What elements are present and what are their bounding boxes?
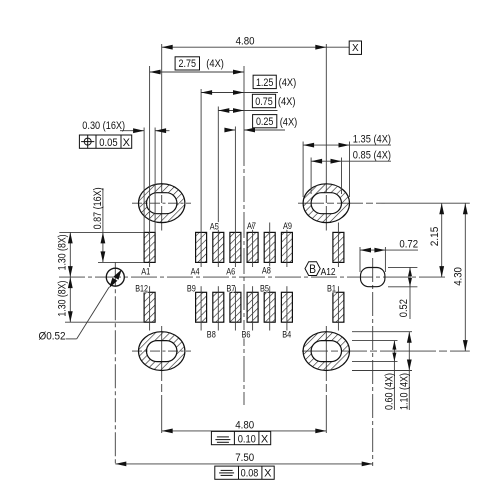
svg-text:B4: B4 <box>282 329 291 339</box>
right hole vertical centerline extended to 7.50 dim <box>372 258 374 466</box>
svg-text:(4X): (4X) <box>278 96 296 108</box>
svg-text:X: X <box>261 433 269 445</box>
svg-text:A5: A5 <box>210 222 219 232</box>
svg-text:A9: A9 <box>283 221 292 231</box>
contact pad A6 <box>230 232 241 262</box>
svg-text:4.80: 4.80 <box>235 420 254 432</box>
contact pad A7 <box>247 232 258 262</box>
dimension 4.80 top between oval centers <box>162 46 327 48</box>
svg-text:1.30 (8X): 1.30 (8X) <box>56 234 68 270</box>
svg-text:0.87 (16X): 0.87 (16X) <box>92 187 104 229</box>
contact pad B8 <box>213 292 224 322</box>
datum B hexagon <box>305 262 320 276</box>
datum X box with connecting line <box>326 46 349 48</box>
svg-text:2.15: 2.15 <box>429 227 441 247</box>
dimension 0.52 right hole height <box>388 266 417 268</box>
dimension 0.85 (4X) oval hole width <box>311 160 391 162</box>
right side hole 0.72 x 0.52 obround <box>361 268 385 287</box>
dimension 0.30 (16X) pad width with outside arrows <box>120 130 144 132</box>
dimension 7.50 between hole centers <box>115 463 372 465</box>
svg-text:1.30 (8X): 1.30 (8X) <box>56 281 68 317</box>
extension lines for 1.35 and 0.85 dims <box>302 142 304 198</box>
contact pad B9 <box>196 292 207 322</box>
svg-text:(4X): (4X) <box>206 58 224 70</box>
position feature control frame 0.05 X <box>79 135 131 148</box>
bottom-left oval vertical centerline extended to dim <box>161 326 163 433</box>
top-right oval horizontal centerline <box>298 202 385 204</box>
contact pad B6 <box>247 292 258 322</box>
svg-text:B6: B6 <box>242 329 251 339</box>
svg-text:0.52: 0.52 <box>398 299 410 317</box>
svg-text:X: X <box>352 43 359 54</box>
svg-text:4.80: 4.80 <box>236 35 255 47</box>
bottom-right oval vertical centerline extended to dim <box>325 326 327 433</box>
svg-text:0.05: 0.05 <box>99 137 117 149</box>
dimension 1.35 (4X) oval pad width <box>303 144 391 146</box>
dimension 1.25 (4X) <box>201 92 278 94</box>
svg-text:B5: B5 <box>260 283 269 293</box>
extension line A1 pad right edge <box>154 128 156 233</box>
bottom-right oval horizontal centerline <box>302 350 390 352</box>
top-left oval horizontal centerline <box>132 202 191 204</box>
contact pad A1 <box>144 232 155 262</box>
contact pad A12 <box>333 232 344 262</box>
dimension 1.10 (4X) oval pad height <box>352 331 412 333</box>
oval mounting pad bottom-right (1.35 x 1.10, hole 0.85 x 0.60) <box>303 332 349 371</box>
svg-text:B9: B9 <box>187 283 196 293</box>
dimension 2.15 oval center to centerline <box>441 203 443 277</box>
svg-text:A6: A6 <box>226 266 235 276</box>
extension line at A-pad bottom edge <box>98 261 144 263</box>
dimension 0.72 right hole width <box>359 247 361 272</box>
contact pad A8 <box>264 232 275 262</box>
left hole, diameter 0.52, with leader bowtie arrows <box>106 268 124 286</box>
svg-text:0.60 (4X): 0.60 (4X) <box>384 373 396 410</box>
svg-text:(4X): (4X) <box>279 77 297 89</box>
svg-text:B8: B8 <box>207 329 216 339</box>
svg-text:A8: A8 <box>262 266 271 276</box>
contact pad B5 <box>264 292 275 322</box>
dimension 0.60 (4X) oval hole height <box>352 340 398 342</box>
dimension 0.75 (4X) <box>218 110 277 112</box>
oval mounting pad top-right (1.35 x 1.10, hole 0.85 x 0.60) <box>303 184 349 223</box>
dimension 2.75 (4X) from centerline to A1 center <box>150 71 244 73</box>
svg-text:1.35 (4X): 1.35 (4X) <box>353 133 391 145</box>
contact pad A5 <box>213 232 224 262</box>
contact pad A4 <box>196 232 207 262</box>
svg-text:2.75: 2.75 <box>179 58 197 70</box>
contact pad A9 <box>281 232 292 262</box>
main vertical centerline upper solid part <box>243 66 245 140</box>
dimension 0.87 (16X) pad length <box>102 188 104 262</box>
extension line at A-pad top edge <box>59 231 144 233</box>
extension line at B-pad bottom edge <box>65 321 144 323</box>
symmetry feature control frame 0.10 X <box>211 431 270 444</box>
svg-text:0.72: 0.72 <box>399 238 418 250</box>
contact pad B4 <box>281 292 292 322</box>
svg-text:0.08: 0.08 <box>241 468 259 480</box>
pad centerlines <box>149 66 151 267</box>
svg-text:0.25: 0.25 <box>256 116 274 128</box>
top-right oval vertical centerline <box>325 44 327 231</box>
oval mounting pad top-left (1.35 x 1.10, hole 0.85 x 0.60) <box>139 184 185 223</box>
left hole vertical centerline extended to 7.50 dim <box>114 262 116 466</box>
svg-text:0.30 (16X): 0.30 (16X) <box>82 120 125 132</box>
extension line at top oval center height to 2.15/4.30 dims <box>385 202 470 204</box>
svg-text:1.10 (4X): 1.10 (4X) <box>399 373 411 410</box>
svg-text:A7: A7 <box>247 221 256 231</box>
svg-text:B1: B1 <box>327 283 336 293</box>
svg-text:1.25: 1.25 <box>256 77 274 89</box>
svg-text:0.75: 0.75 <box>255 96 273 108</box>
bottom-left oval horizontal centerline <box>132 350 191 352</box>
dimension 4.30 oval row spacing <box>464 203 466 351</box>
dimension 1.30 (8X) lower: centerline to B pad bottom <box>69 277 71 322</box>
svg-text:A12: A12 <box>321 266 336 278</box>
svg-text:B7: B7 <box>226 283 235 293</box>
contact pad B1 <box>333 292 344 322</box>
svg-text:A4: A4 <box>191 266 200 276</box>
symmetry feature control frame 0.08 X <box>215 466 274 479</box>
svg-text:4.30: 4.30 <box>453 267 465 286</box>
svg-text:X: X <box>123 137 131 149</box>
svg-text:(4X): (4X) <box>280 116 298 128</box>
svg-text:7.50: 7.50 <box>235 452 254 464</box>
main horizontal centerline (dash-dot) <box>59 276 446 278</box>
dimension 1.30 (8X) upper: centerline to A pad top <box>69 232 71 277</box>
contact pad B12 <box>144 292 155 322</box>
svg-text:0.10: 0.10 <box>238 433 256 445</box>
top-left oval vertical centerline <box>161 44 163 231</box>
oval mounting pad bottom-left (1.35 x 1.10, hole 0.85 x 0.60) <box>139 332 185 371</box>
svg-text:X: X <box>264 468 272 480</box>
dimension 0.25 (4X) outside arrows <box>225 129 236 131</box>
main vertical centerline (dash-dot) <box>243 140 245 405</box>
svg-text:Ø0.52: Ø0.52 <box>39 330 66 342</box>
extension line A1 pad left edge <box>143 128 145 233</box>
contact pad B7 <box>230 292 241 322</box>
svg-text:B: B <box>309 264 316 276</box>
svg-text:0.85 (4X): 0.85 (4X) <box>353 150 391 162</box>
extension line at bottom oval center height to 4.30 dim <box>390 350 470 352</box>
svg-text:A1: A1 <box>141 266 150 276</box>
dimension 4.80 bottom between oval centers <box>162 430 327 432</box>
leader line from 0.52 text to left hole center <box>66 338 77 340</box>
svg-text:B12: B12 <box>135 283 148 293</box>
